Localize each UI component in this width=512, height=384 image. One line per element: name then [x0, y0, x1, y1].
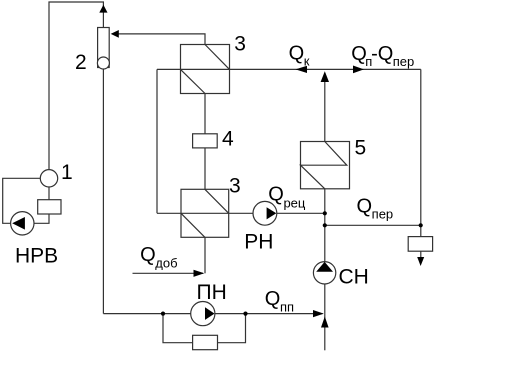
- wire below throttle: [420, 251, 422, 258]
- column 2 float circle: [97, 57, 109, 69]
- junction node dots: [161, 312, 165, 316]
- bypass valve rect: [193, 335, 218, 349]
- wire bottom stub riser: [324, 314, 326, 351]
- pump СН body: [313, 262, 335, 284]
- pump ПН body: [191, 302, 215, 326]
- svg-text:Qдоб: Qдоб: [140, 244, 177, 270]
- svg-text:3: 3: [234, 33, 246, 56]
- svg-text:Qп-Qпер: Qп-Qпер: [351, 43, 414, 69]
- wire right drop to throttle: [420, 69, 422, 236]
- wire main condensate line Qк / Qп-Qпер: [157, 68, 421, 70]
- svg-text:5: 5: [355, 136, 367, 159]
- wire return line into column 2: [112, 34, 205, 45]
- wire regulator 1 loop to НРВ pump: [3, 178, 41, 223]
- arrow right Qп-Qпер: [353, 66, 364, 74]
- arrow down below throttle: [417, 257, 424, 266]
- pump РН impeller triangle: [267, 207, 277, 219]
- wire column 2 down pipe: [102, 63, 104, 314]
- filter 4: [193, 134, 218, 148]
- wire bypass loop around ПН: [163, 314, 246, 343]
- pump РН body: [253, 201, 277, 225]
- wire from exchanger 3 bottom to Qдоб junction: [204, 237, 206, 273]
- arrow left into column 2: [111, 30, 119, 38]
- arrow left Qк: [296, 66, 308, 73]
- arrow up into main condensate line: [321, 71, 329, 82]
- wire regulator 1 to valve: [48, 187, 50, 200]
- wire Qпер branch: [325, 224, 421, 226]
- wire bottom feedwater line to ПН: [103, 313, 322, 315]
- pump НРВ impeller triangle: [12, 217, 25, 230]
- wire between exchanger 3 and filter 4: [204, 94, 206, 190]
- svg-text:Qк: Qк: [289, 42, 310, 68]
- arrow up on bottom stub: [321, 317, 329, 328]
- svg-text:Qпп: Qпп: [265, 288, 294, 315]
- svg-text:НРВ: НРВ: [15, 244, 58, 267]
- arrow right Qдоб: [194, 270, 205, 277]
- svg-text:Qпер: Qпер: [357, 196, 394, 222]
- svg-text:3: 3: [229, 175, 241, 198]
- svg-text:2: 2: [75, 51, 87, 74]
- svg-text:РН: РН: [244, 231, 273, 254]
- heat exchanger 3 lower: [181, 189, 229, 237]
- heat exchanger 3 upper: [181, 45, 230, 94]
- wire left branch between exchangers: [156, 69, 158, 213]
- svg-text:4: 4: [222, 128, 234, 151]
- heat exchanger 5: [301, 142, 350, 189]
- regulator 1 circle: [40, 170, 57, 187]
- pump НРВ body: [11, 212, 34, 235]
- column 2 vessel: [98, 28, 110, 68]
- wire Qдоб makeup line: [133, 272, 204, 274]
- wire main vertical through СН and 5: [324, 73, 326, 314]
- arrow right Qпп into riser: [313, 310, 324, 317]
- pump ПН impeller triangle: [205, 307, 215, 320]
- throttle rect: [408, 237, 432, 252]
- svg-text:ПН: ПН: [197, 281, 227, 304]
- wire valve to НРВ pump: [34, 214, 49, 223]
- valve rect below regulator 1: [38, 200, 61, 214]
- wire riser from column 2 to top rail and down to regulator 1: [49, 2, 103, 170]
- svg-text:СН: СН: [339, 266, 369, 289]
- arrow up into top rail: [99, 5, 107, 13]
- svg-text:1: 1: [61, 161, 73, 184]
- pump СН impeller triangle: [316, 262, 333, 272]
- wire recirculation line through РН: [157, 212, 325, 214]
